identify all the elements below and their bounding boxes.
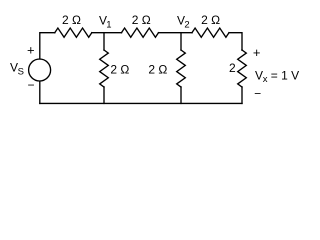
resistor R4 2ohm vertical below V1	[100, 50, 109, 87]
label 2 ohm value of R3	[201, 13, 220, 27]
wire right branch upper lead	[241, 49, 243, 51]
wire from R1 to node V1	[92, 32, 122, 34]
source Vs label	[10, 60, 24, 77]
Vx plus polarity mark	[253, 45, 261, 60]
wire from R4 to bottom rail	[103, 87, 105, 103]
svg-text:V2: V2	[177, 14, 190, 31]
resistor R5 2ohm vertical below V2	[177, 50, 186, 87]
svg-text:2: 2	[229, 61, 236, 75]
svg-text:VS: VS	[10, 60, 24, 77]
voltage source Vs circle	[29, 59, 51, 81]
node V1 junction wire down from top rail	[103, 33, 105, 50]
svg-text:Vx = 1 V: Vx = 1 V	[255, 68, 299, 85]
svg-text:2 Ω: 2 Ω	[132, 13, 151, 27]
svg-text:2 Ω: 2 Ω	[110, 62, 129, 76]
svg-text:2 Ω: 2 Ω	[62, 13, 81, 27]
wire from source bottom to bottom rail	[39, 81, 41, 103]
wire top-right corner from R3 down to R6	[229, 33, 242, 50]
label 2 ohm value of R4	[110, 62, 129, 76]
label 2 ohm value of R1	[62, 13, 81, 27]
svg-text:+: +	[27, 42, 35, 57]
svg-text:+: +	[253, 45, 261, 60]
source plus polarity mark	[27, 42, 35, 57]
svg-text:−: −	[27, 78, 34, 92]
node V1 label	[99, 14, 112, 31]
node V2 junction wire down from top rail	[180, 33, 182, 50]
Vx = 1 V annotation	[255, 68, 299, 85]
resistor R2 2ohm horizontal between V1 and V2	[122, 28, 159, 37]
svg-text:2 Ω: 2 Ω	[201, 13, 220, 27]
resistor R6 2ohm vertical right branch	[238, 50, 247, 87]
wire top-left corner from source to R1	[40, 33, 55, 59]
node V2 label	[177, 14, 190, 31]
resistor R3 2ohm horizontal right of V2	[192, 28, 229, 37]
label 2 ohm value of R5	[148, 62, 167, 76]
wire from R5 to bottom rail	[180, 87, 182, 103]
label 2 ohm value of R2	[132, 13, 151, 27]
source minus polarity mark	[27, 78, 34, 92]
svg-text:V1: V1	[99, 14, 112, 31]
wire from R6 to bottom rail	[241, 87, 243, 103]
svg-text:2 Ω: 2 Ω	[148, 62, 167, 76]
resistor R1 2ohm horizontal top-left	[55, 28, 92, 37]
wire bottom rail	[40, 102, 242, 104]
svg-text:−: −	[254, 87, 261, 101]
Vx minus polarity mark	[254, 87, 261, 101]
wire from R2 to node V2	[159, 32, 193, 34]
label 2 value of R6	[229, 61, 236, 75]
